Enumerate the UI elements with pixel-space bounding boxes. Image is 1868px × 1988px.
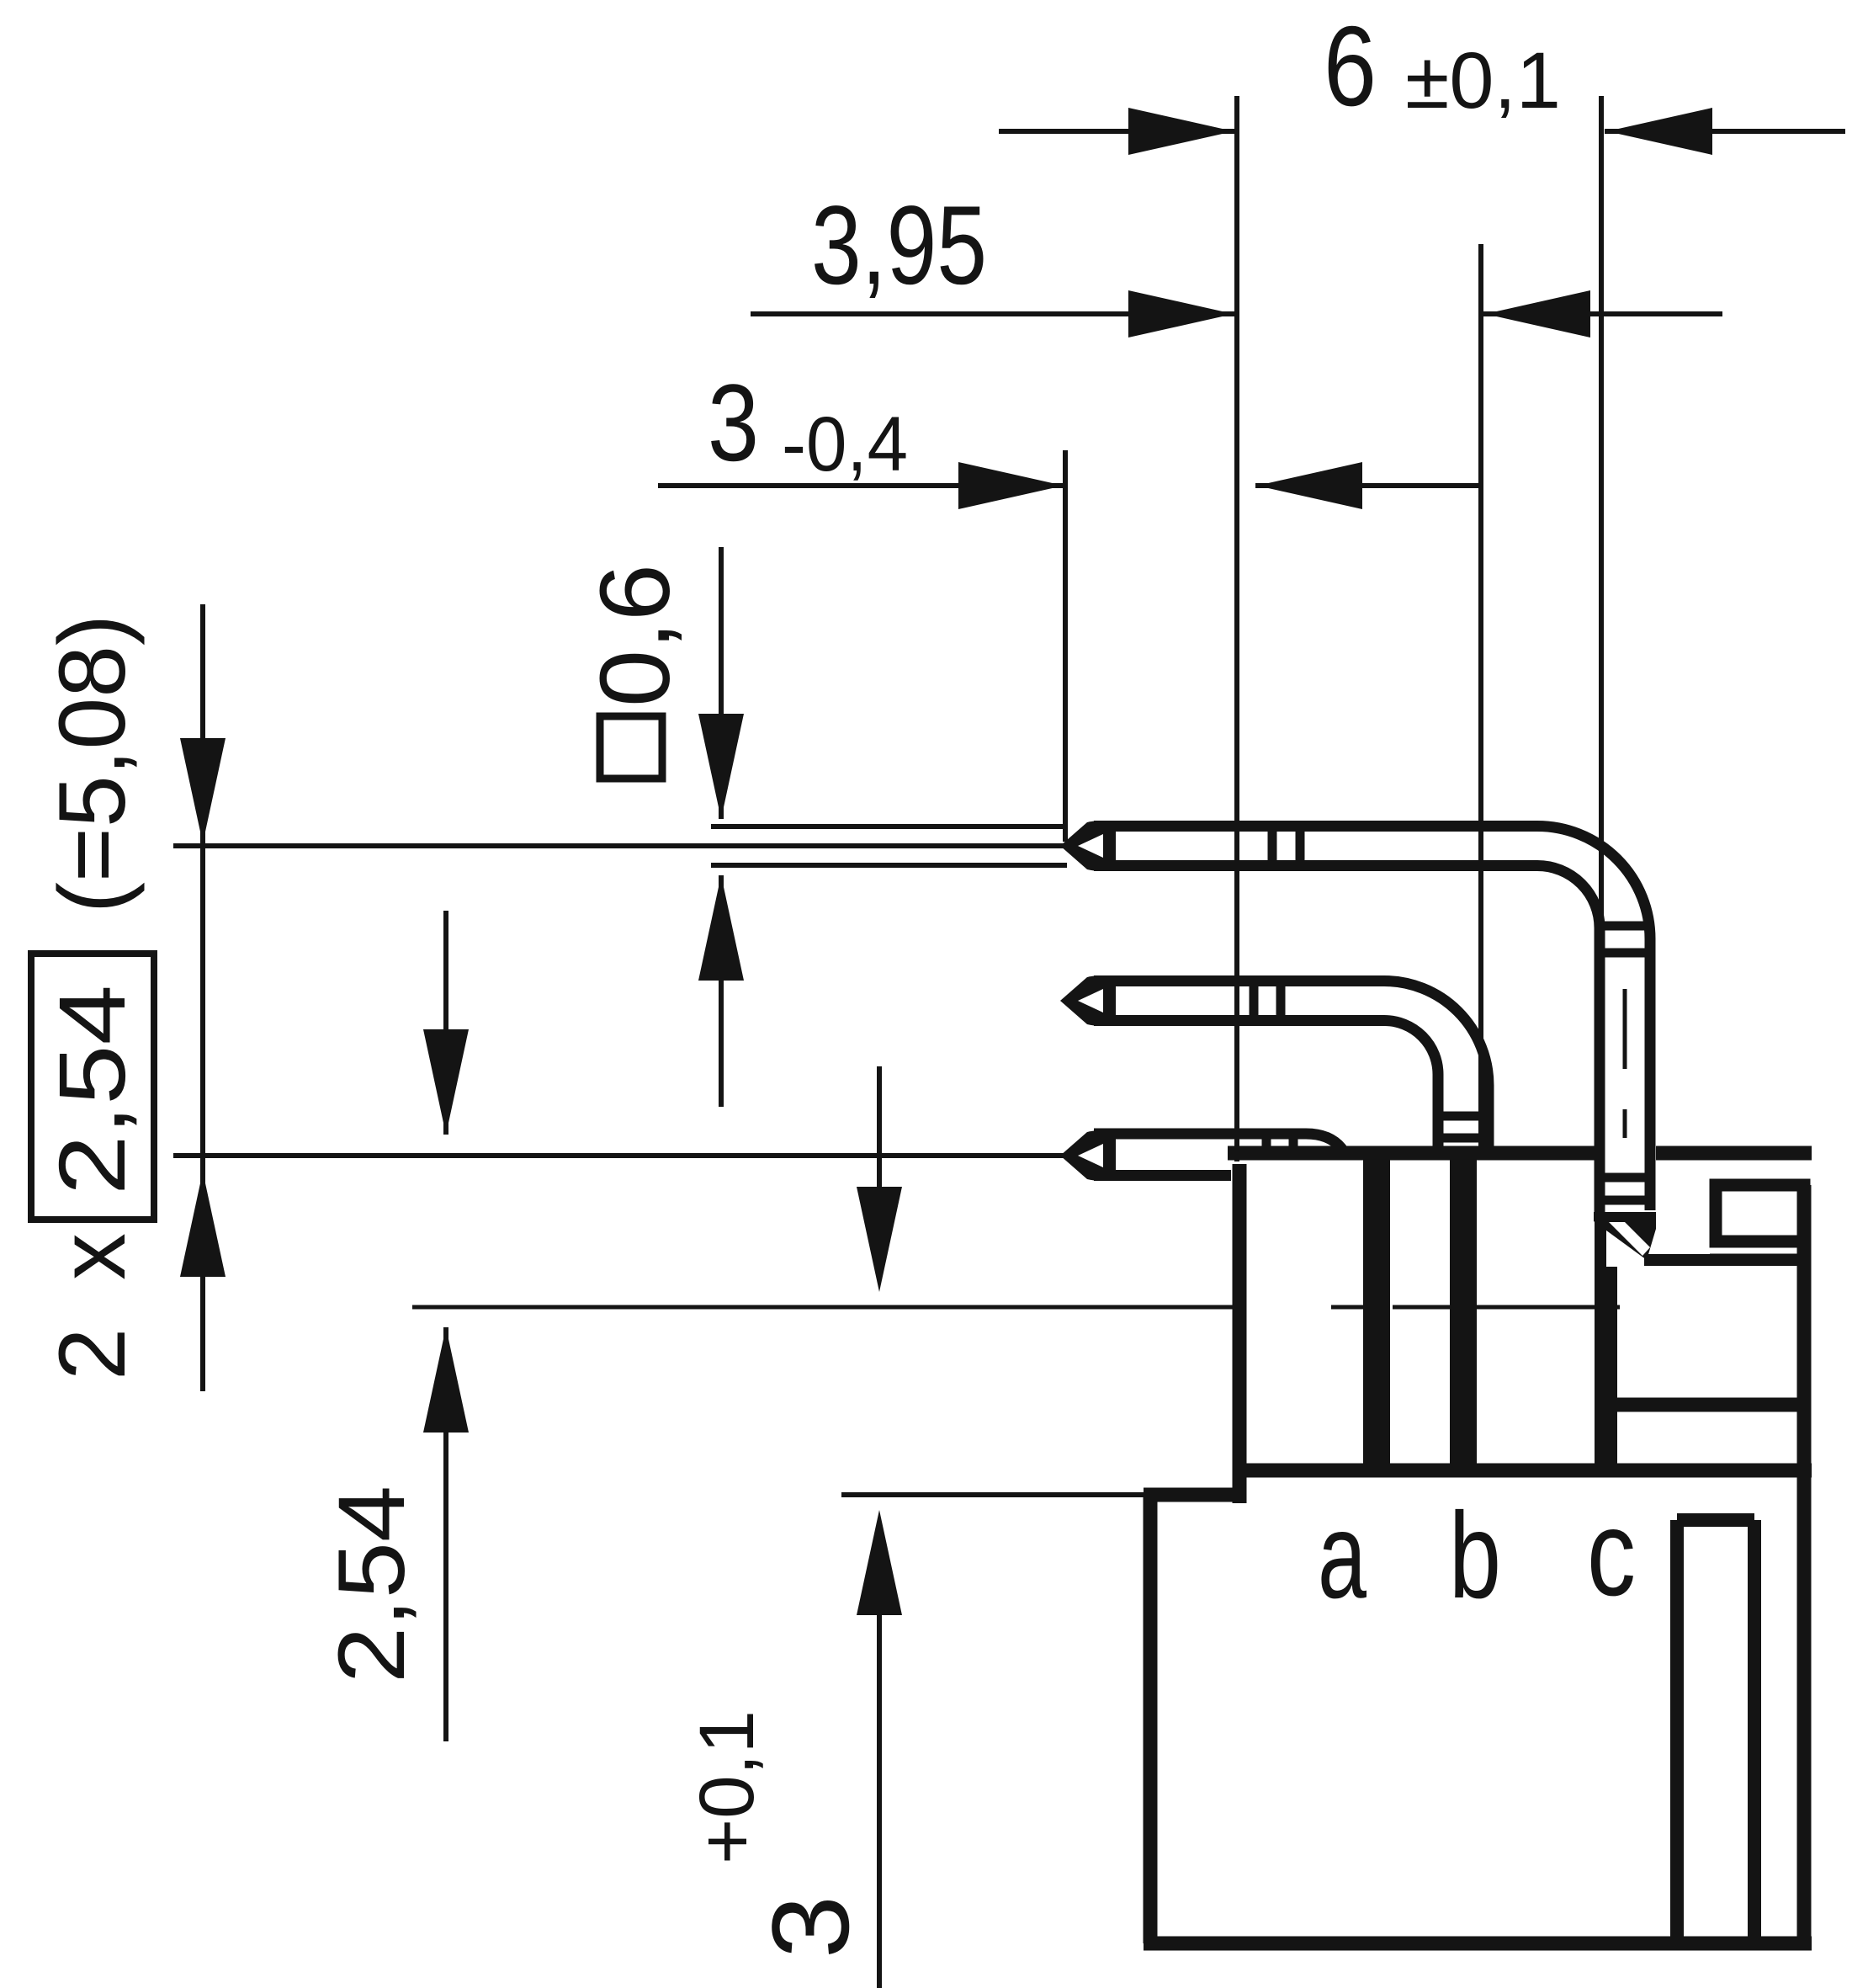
flange divider — [1611, 1398, 1804, 1412]
flange top edge — [1644, 1254, 1804, 1266]
arrowhead down at center line — [857, 1187, 902, 1292]
extension line pin1 top edge — [711, 824, 1067, 829]
label +0,1 — [684, 1710, 770, 1864]
right dimension 3+0,1 lower segment — [877, 1615, 882, 1988]
pin c collar ticks — [1268, 825, 1277, 867]
svg-text:b: b — [1449, 1487, 1501, 1624]
svg-text:3: 3 — [749, 1895, 872, 1959]
pin c leg center dashes — [1623, 989, 1627, 1069]
main body bottom edge — [1144, 1937, 1812, 1951]
pin a collar ticks — [1262, 1130, 1271, 1158]
pin b leg collar ticks — [1435, 1112, 1492, 1121]
shroud bottom edge — [1237, 1464, 1812, 1478]
mid dimension line 2,54 upper segment — [443, 911, 448, 1135]
main body notch top edge — [1144, 1488, 1246, 1502]
slot right wall — [1748, 1520, 1761, 1943]
extension line 6 xC — [1599, 96, 1604, 993]
square 0,6 dimension upper segment — [719, 547, 724, 819]
body top edge right segment — [1656, 1146, 1812, 1161]
arrowhead up at pin1 bottom — [698, 875, 744, 981]
extension line body step — [841, 1492, 1148, 1497]
svg-text:+0,1: +0,1 — [684, 1710, 770, 1864]
extension line 3,95 xB — [1478, 244, 1483, 1153]
arrowhead up at center line — [423, 1327, 469, 1433]
pin a outline bottom edge — [1094, 1170, 1231, 1181]
box around 2,54 — [31, 954, 154, 1220]
left dimension line 2x2,54 — [200, 604, 205, 1391]
svg-text:c: c — [1587, 1485, 1636, 1621]
dimension 3,95 line — [751, 311, 1237, 316]
svg-text:2 x: 2 x — [40, 1233, 145, 1380]
dimension 3 -0,4 line — [658, 483, 1065, 488]
square symbol — [600, 716, 662, 779]
center line — [412, 1305, 1233, 1310]
arrowhead down at pin3 line — [423, 1029, 469, 1135]
extension line pin1 center — [173, 843, 1064, 848]
svg-text:3: 3 — [708, 361, 759, 484]
main body left wall — [1144, 1495, 1158, 1943]
pin a outline top edge — [1094, 1134, 1346, 1155]
arrowhead left at 3,95 right — [1485, 290, 1590, 338]
label 2,54 — [319, 1486, 424, 1683]
label 3 — [749, 1895, 872, 1959]
pin c nose — [1060, 821, 1116, 871]
svg-text:6: 6 — [1324, 3, 1377, 130]
flange left wall — [1595, 1215, 1606, 1477]
slot top edge — [1677, 1513, 1754, 1527]
label 2 x — [40, 1233, 145, 1380]
shroud top edge — [1228, 1146, 1595, 1161]
latch box — [1716, 1185, 1804, 1241]
pin b outline — [1094, 981, 1489, 1161]
main body right wall — [1797, 1185, 1812, 1943]
extension line pin3 center — [173, 1153, 1064, 1158]
extension line front face xA — [1234, 96, 1239, 1161]
flange left wall lower thickening — [1604, 1267, 1617, 1473]
svg-text:2,54: 2,54 — [40, 985, 145, 1195]
pin c leg collar ticks — [1598, 922, 1652, 931]
arrowhead left at 6-dim right — [1607, 108, 1712, 155]
svg-text:0,6: 0,6 — [580, 564, 691, 707]
arrowhead left at 3-dim right — [1257, 462, 1362, 509]
pin c leg lower ticks — [1598, 1173, 1652, 1183]
pin a leg solid bar — [1363, 1149, 1390, 1477]
mid dimension line 2,54 lower segment — [443, 1327, 448, 1741]
arrowhead up at body step — [857, 1510, 902, 1615]
svg-text:a: a — [1318, 1487, 1367, 1624]
latch double bottom line — [1710, 1254, 1810, 1265]
arrowhead right at 6-dim left — [1128, 108, 1234, 155]
arrowhead down at pin1 top — [698, 714, 744, 819]
arrowhead down at pin1 center — [180, 738, 226, 843]
svg-text:±0,1: ±0,1 — [1405, 36, 1561, 125]
right dimension 3+0,1 upper segment — [877, 1066, 882, 1188]
svg-text:2,54: 2,54 — [319, 1486, 424, 1683]
svg-text:3,95: 3,95 — [811, 183, 987, 308]
arrowhead right at 3,95 left — [1128, 290, 1234, 338]
pin a nose — [1060, 1130, 1116, 1181]
label 0,6 — [580, 564, 691, 707]
arrowhead up at pin3 center — [180, 1172, 226, 1277]
extension line pin1 bottom edge — [711, 863, 1067, 868]
dimension 6 ±0,1 line — [999, 129, 1237, 134]
label 2,54 boxed — [40, 985, 145, 1195]
svg-text:-0,4: -0,4 — [782, 401, 908, 487]
svg-text:(=5,08): (=5,08) — [40, 614, 145, 913]
extension line pin tips xP — [1063, 450, 1068, 842]
shroud left wall — [1233, 1164, 1247, 1503]
pin b leg solid bar — [1450, 1152, 1477, 1477]
slot left wall — [1670, 1520, 1684, 1943]
pin b collar ticks — [1250, 980, 1259, 1022]
square 0,6 dimension lower segment — [719, 875, 724, 1107]
pin c outline — [1094, 827, 1650, 1211]
pin c leg tip — [1594, 1212, 1656, 1260]
label (=5,08) — [40, 614, 145, 913]
arrowhead right at 3-dim left — [958, 462, 1064, 509]
pin b nose — [1060, 975, 1116, 1026]
